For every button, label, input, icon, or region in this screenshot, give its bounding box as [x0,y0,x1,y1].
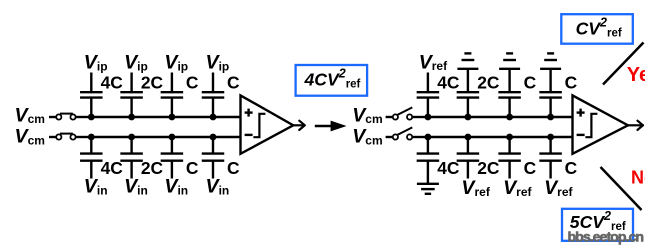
svg-text:C: C [186,158,199,178]
energy label box 5CVref^2 [562,209,633,241]
svg-text:C: C [524,158,537,178]
Vip label col 3 [164,52,188,74]
Vin label col 4 [206,176,230,198]
comparator U1 output wire with arrow [293,121,305,130]
svg-text:4C: 4C [437,72,460,92]
capacitor C top row left DAC col 3 [161,73,184,118]
node junction dot top rail R1 [425,114,432,121]
svg-text:4C: 4C [437,158,460,178]
node junction dot top rail L3 [169,114,176,121]
value label C (bottom-right row) [565,158,578,178]
capacitor 4C top row right DAC col 1 [417,73,440,118]
node junction dot top rail R3 [506,114,513,121]
value label 2C (top-right row) [477,72,500,92]
svg-text:2C: 2C [141,72,164,92]
svg-text:C: C [186,72,199,92]
switch S1 (closed) top-left Vcm [49,114,91,120]
No label [631,167,645,187]
node junction dot bottom rail R3 [506,134,513,141]
capacitor 2C bottom row left DAC col 2 [120,137,143,179]
node junction dot bottom rail L1 [88,134,95,141]
capacitor 4C top row left DAC col 1 [80,73,103,118]
svg-text:C: C [524,72,537,92]
comparator U2 latch clock symbol [585,114,597,137]
Vin label col 2 [124,176,148,198]
value label C (bottom-right row) [524,158,537,178]
node junction dot bottom rail R4 [547,134,554,141]
Vref label bottom right DAC col 2 [461,177,490,199]
energy label box 4CVref^2 [296,65,368,96]
svg-text:4C: 4C [101,158,124,178]
Vip label col 1 [84,52,108,74]
capacitor 2C top row right DAC col 2 [457,69,480,117]
node junction dot top rail R2 [465,114,472,121]
Vip label col 2 [124,52,148,74]
svg-text:2C: 2C [141,158,164,178]
comparator U1 - input pin [245,134,253,136]
comparator U2 [573,95,629,153]
svg-text:2C: 2C [477,72,500,92]
svg-text:C: C [565,72,578,92]
node junction dot bottom rail R1 [425,134,432,141]
value label C (bottom-left row) [186,158,199,178]
svg-text:bbs.eetop.cn: bbs.eetop.cn [568,229,644,245]
wire top plate rail (left DAC) [91,116,240,118]
watermark bbs.eetop.cn [568,229,644,245]
Vcm label (right top) [352,104,382,126]
ground symbol top col 2 [457,53,478,68]
capacitor C top row right DAC col 4 [539,69,562,117]
energy label box CVref^2 [561,14,633,44]
value label 4C (top-left row) [101,72,124,92]
svg-text:C: C [227,158,240,178]
ground symbol top col 4 [540,53,561,68]
comparator U2 output wire with arrow [628,121,644,130]
switch S3 (open) top-right Vcm [386,107,428,119]
capacitor C top row left DAC col 4 [202,73,225,118]
capacitor C top row right DAC col 3 [498,69,520,117]
transition arrow [315,121,347,132]
value label 2C (bottom-right row) [477,158,500,178]
ground symbol bottom col 1 [417,184,439,194]
capacitor C bottom row right DAC col 4 [539,137,562,179]
capacitor C bottom row left DAC col 4 [202,137,225,179]
Vref label bottom right DAC col 4 [544,177,573,199]
Vcm label (left bottom) [15,125,45,147]
wire top plate rail (right DAC) [428,116,573,118]
capacitor C bottom row right DAC col 3 [498,137,520,179]
value label C (top-right row) [565,72,578,92]
value label 4C (top-right row) [437,72,460,92]
value label 4C (bottom-left row) [101,158,124,178]
node junction dot top rail R4 [547,114,554,121]
wire bottom plate rail (right DAC) [428,136,573,138]
decision branch line (yes) [603,43,644,85]
switch S4 (open) bottom-right Vcm [386,127,428,139]
comparator U1 [241,95,294,153]
svg-text:2C: 2C [477,158,500,178]
svg-text:C: C [227,72,240,92]
value label C (top-left row) [227,72,240,92]
svg-text:No: No [631,167,645,187]
node junction dot top rail L2 [128,114,135,121]
ground symbol top col 3 [499,53,520,68]
comparator U1 latch clock symbol [253,114,265,137]
Vin label col 3 [164,176,188,198]
Vip label col 4 [206,52,230,74]
value label C (top-right row) [524,72,537,92]
node junction dot bottom rail L3 [169,134,176,141]
svg-text:4C: 4C [101,72,124,92]
svg-text:Yes: Yes [627,64,645,86]
node junction dot bottom rail R2 [465,134,472,141]
comparator U2 + input pin [577,109,585,117]
value label C (top-left row) [186,72,199,92]
wire bottom plate rail (left DAC) [91,136,240,138]
svg-text:C: C [565,158,578,178]
value label 2C (bottom-left row) [141,158,164,178]
node junction dot bottom rail L4 [210,134,217,141]
value label 4C (bottom-right row) [437,158,460,178]
Vcm label (right bottom) [352,125,382,147]
Vref label top right DAC col 1 [419,51,448,73]
value label C (bottom-left row) [227,158,240,178]
node junction dot top rail L4 [210,114,217,121]
node junction dot top rail L1 [88,114,95,121]
capacitor 4C bottom row left DAC col 1 [80,137,103,179]
decision branch line (no) [601,167,642,210]
comparator U2 - input pin [577,134,585,136]
comparator U1 + input pin [245,109,253,117]
capacitor 2C top row left DAC col 2 [120,73,143,118]
Vref label bottom right DAC col 3 [503,177,532,199]
capacitor C bottom row left DAC col 3 [161,137,184,179]
Vin label col 1 [84,176,108,198]
capacitor 4C bottom row right DAC col 1 [417,137,440,183]
value label 2C (top-left row) [141,72,164,92]
Yes label [627,64,645,86]
capacitor 2C bottom row right DAC col 2 [457,137,480,179]
Vcm label (left top) [15,104,45,126]
node junction dot bottom rail L2 [128,134,135,141]
switch S2 (closed) bottom-left Vcm [49,134,91,140]
